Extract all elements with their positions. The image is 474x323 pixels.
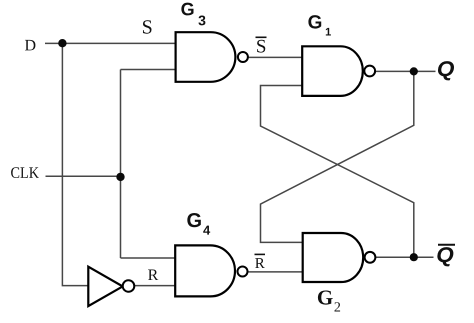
svg-text:1: 1	[325, 27, 331, 39]
svg-text:R: R	[255, 256, 265, 272]
svg-text:CLK: CLK	[10, 165, 39, 182]
svg-text:S: S	[256, 36, 267, 57]
svg-text:G: G	[181, 0, 195, 19]
svg-text:3: 3	[198, 12, 206, 28]
svg-text:G: G	[308, 12, 323, 33]
svg-text:S: S	[142, 17, 153, 39]
svg-text:G: G	[186, 210, 202, 232]
svg-text:Q: Q	[437, 57, 455, 81]
svg-text:D: D	[25, 37, 37, 54]
svg-text:4: 4	[203, 223, 211, 238]
svg-text:2: 2	[334, 301, 341, 316]
svg-text:Q: Q	[436, 243, 454, 267]
svg-text:G: G	[317, 285, 333, 309]
svg-text:R: R	[148, 267, 159, 284]
